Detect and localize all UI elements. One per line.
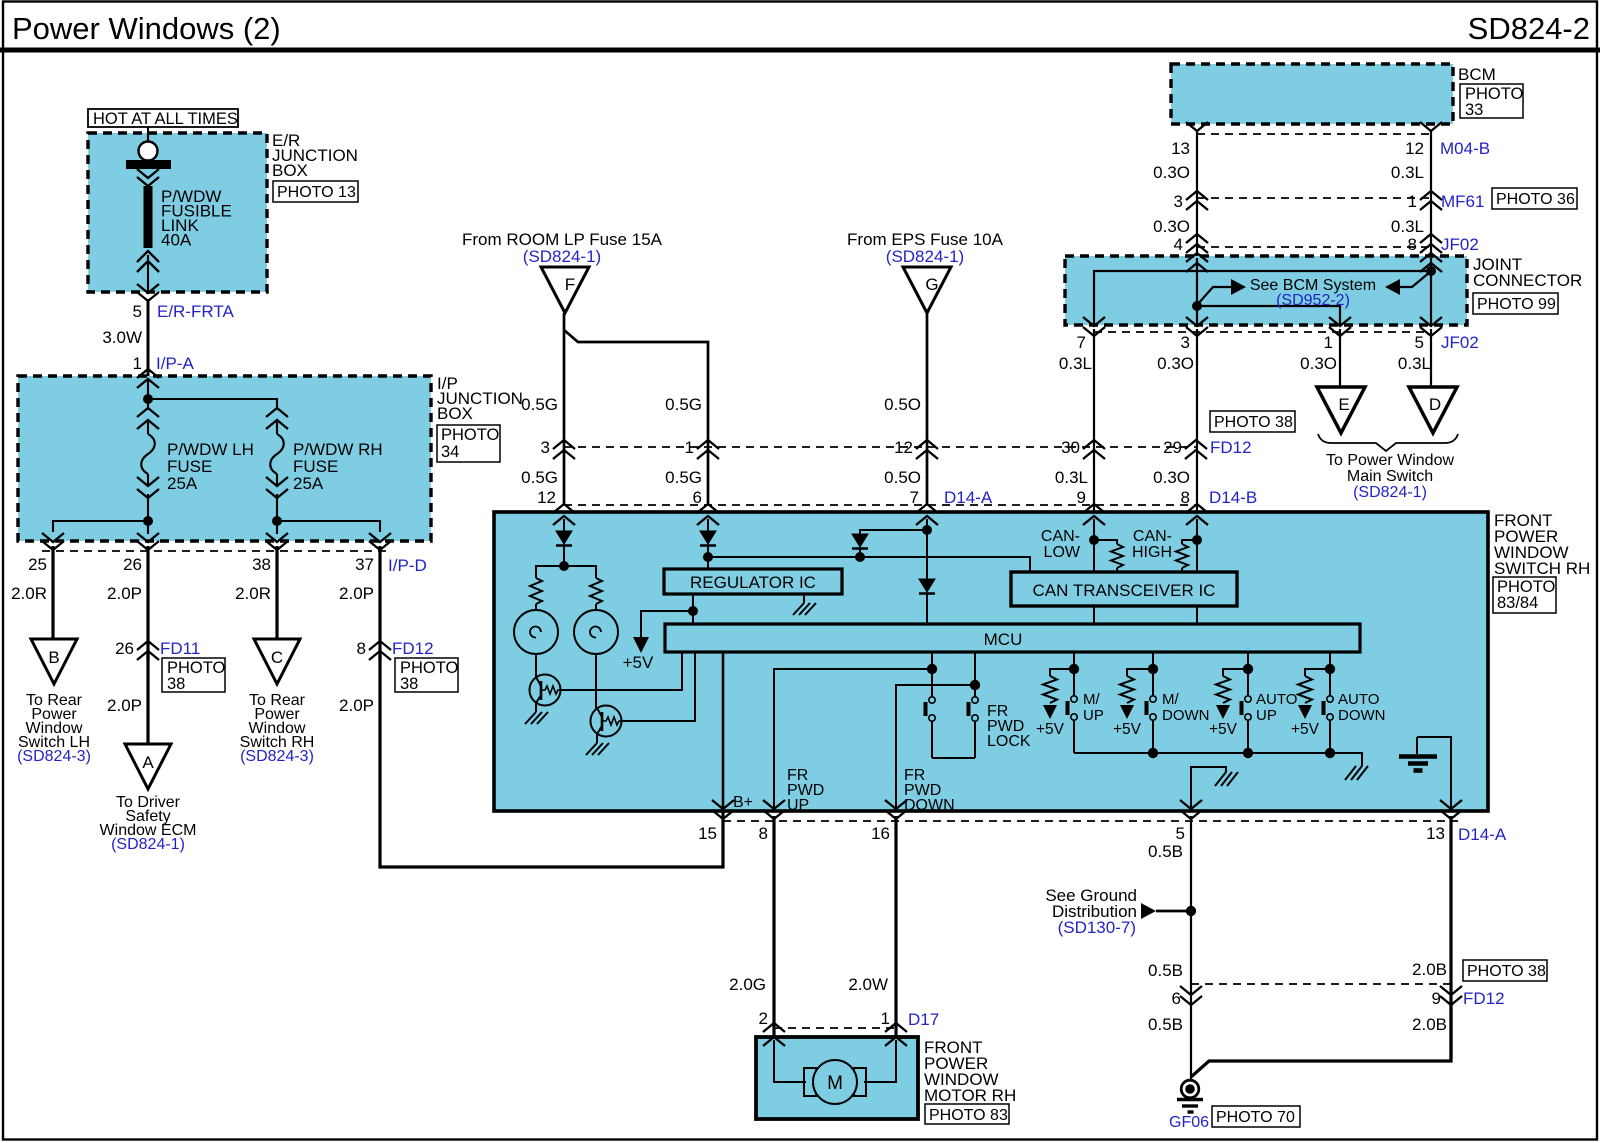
svg-text:I/P-D: I/P-D [388,556,427,575]
pin number 1 / connector I/P-A [133,354,195,373]
svg-text:2.0P: 2.0P [339,696,374,715]
pin 8 / FD12 labels [357,639,434,658]
svg-text:0.3O: 0.3O [1153,163,1190,182]
motor entry chevrons pin 1 [885,1023,907,1046]
svg-text:1: 1 [1408,192,1417,211]
front power window motor RH box [756,1037,918,1119]
chevrons pin 1 (x708) [685,438,719,459]
svg-text:(SD824-3): (SD824-3) [17,748,91,765]
wire 2.0P to FD11 [107,546,148,660]
wire lamp2 to transistor Q2 [595,654,597,710]
lock switch feed from pin 16 (FR PWD DOWN) [896,685,975,812]
svg-text:2.0B: 2.0B [1412,1015,1447,1034]
label FR PWD DOWN [904,767,955,814]
connector dashed row FD12 (mid) [564,446,1196,448]
svg-text:33: 33 [1465,101,1483,119]
label See Ground Distribution [1045,886,1137,937]
svg-text:DOWN: DOWN [904,797,955,814]
wire labels 0.3L 0.3O 0.3O 0.3L [1059,354,1431,373]
svg-text:(SD824-1): (SD824-1) [523,247,601,266]
triangle connector G [903,267,951,313]
BCM pin 12 chevron [1420,122,1442,131]
switch common bus [1074,748,1362,766]
label To Rear Power Window Switch RH [240,692,315,765]
svg-text:12: 12 [894,438,913,457]
base wire Q1 to MCU [560,652,682,690]
wire 2.0B pin 13 down [1412,816,1451,1059]
svg-text:0.5O: 0.5O [884,468,921,487]
dashed row GF06/FD12 bottom [1191,983,1451,985]
svg-text:CAN-: CAN- [1133,528,1172,545]
svg-text:CAN TRANSCEIVER IC: CAN TRANSCEIVER IC [1033,581,1216,600]
label FR PWD LOCK [987,703,1031,750]
svg-text:CONNECTOR: CONNECTOR [1473,271,1582,290]
connector FD11 chevrons [137,641,159,660]
svg-text:1: 1 [881,1009,890,1028]
label See BCM System (SD952-2) [1250,277,1376,309]
svg-text:0.5B: 0.5B [1148,961,1183,980]
label To Power Window Main Switch [1326,452,1454,501]
svg-text:B+: B+ [733,794,753,811]
ground (Q2) [586,743,609,755]
label FR PWD UP [787,767,824,814]
wire pin 8 to transceiver [1192,519,1202,572]
connector GF06 chevrons (pin 6) [1172,986,1202,1008]
BCM pin 13 chevron [1186,122,1208,131]
svg-text:BOX: BOX [272,161,308,180]
wire from left node to pin 1 [1197,306,1340,325]
lamp L1 [514,610,558,654]
pin labels 12 6 7 D14-A 9 8 D14-B [537,488,1257,507]
pin number 5 / connector E/R-FRTA [133,302,235,321]
svg-text:0.3O: 0.3O [1157,354,1194,373]
svg-text:D14-A: D14-A [944,488,993,507]
label box PHOTO 13 [273,181,358,202]
I/P junction box (cyan, dashed) [18,376,431,541]
label box PHOTO 36 [1492,188,1577,209]
lock switch bottom link [932,757,975,759]
wire from HOT box to terminal [147,127,149,142]
+5V feed arrow [623,611,693,672]
label M/ DOWN [1162,691,1210,724]
svg-text:HIGH: HIGH [1132,544,1172,561]
svg-text:38: 38 [252,555,271,574]
connector MF61 dashed row [1197,197,1431,199]
label box PHOTO 38 (bottom) [1463,960,1547,981]
resistor (AUTO UP) with +5V [1209,669,1248,738]
label box PHOTO 34 [437,425,500,462]
wire LH bottom branch to pin 25 [53,521,148,532]
svg-text:(SD824-1): (SD824-1) [1353,484,1427,501]
switch M/DOWN [1147,696,1157,753]
svg-text:Main Switch: Main Switch [1347,468,1433,485]
triangle connector E [1317,387,1365,433]
svg-text:(SD824-1): (SD824-1) [111,836,185,853]
joint connector box (cyan, dashed) [1065,256,1467,325]
JF02 chevrons pin 8 [1408,234,1479,254]
diode D4 (pin 7 lower) [919,579,935,624]
HOT AT ALL TIMES box [88,109,238,128]
svg-text:D17: D17 [908,1010,939,1029]
svg-text:2.0P: 2.0P [107,696,142,715]
fuse P/WDW LH (symbol) [137,408,159,521]
svg-text:0.3O: 0.3O [1153,217,1190,236]
wire diode D2 to node [703,546,713,569]
chevrons below fusible link [137,251,159,292]
title separator bar [0,48,1600,53]
lock switch 2 [969,697,979,758]
wire branch to RH fuse [148,399,277,410]
svg-text:GF06: GF06 [1169,1114,1209,1131]
svg-text:+5V: +5V [1209,721,1238,738]
switch M/UP [1068,696,1078,753]
svg-text:Power Windows (2): Power Windows (2) [12,11,281,46]
resistor (AUTO DOWN) with +5V [1291,669,1330,738]
wire 2.0P from FD12 to B+ pin 15 [339,655,723,867]
svg-text:38: 38 [400,675,418,693]
branch pin7 node to diode D3 [860,530,927,534]
label I/P JUNCTION BOX [437,374,523,423]
ground (pin5 stub) [1215,772,1238,786]
label box PHOTO 99 [1473,293,1558,314]
joint box exit chevrons pin 5 [1420,317,1442,336]
base wire Q2 to MCU [621,652,695,721]
CAN transceiver IC box [1011,572,1237,606]
wire joint pin 1 to triangle E [1339,329,1341,387]
svg-text:1: 1 [133,354,142,373]
svg-text:MCU: MCU [984,630,1023,649]
svg-text:1: 1 [1324,333,1333,352]
svg-text:13: 13 [1171,139,1190,158]
label GF06 [1169,1114,1209,1131]
wire stubs down to box edge [148,521,277,534]
svg-text:4: 4 [1174,235,1183,254]
exit chevron pin 13 [1440,800,1462,819]
svg-text:12: 12 [1405,139,1424,158]
front power window switch RH box [494,512,1488,811]
svg-text:BOX: BOX [437,404,473,423]
svg-text:5: 5 [133,302,142,321]
triangle connector F [541,267,589,313]
svg-text:PHOTO 13: PHOTO 13 [277,184,356,201]
label P/WDW LH FUSE 25A [167,440,254,493]
wire diode to lamp rail node [559,546,569,571]
svg-text:FD11: FD11 [160,639,200,658]
wire joint pin 3 down to switch box [1196,329,1198,513]
svg-text:15: 15 [698,824,717,843]
brace under E and D [1318,434,1458,451]
label M/ UP [1083,691,1104,724]
switch group AUTO UP riser [1243,652,1253,696]
resistor (M/UP) with +5V [1036,669,1074,738]
wire pin 5 internal with ground stub [1191,767,1226,812]
E/R junction box (cyan, dashed) [88,133,267,292]
svg-text:M: M [827,1073,843,1094]
chevrons below terminal [137,169,159,186]
svg-text:D: D [1429,395,1441,414]
svg-text:BCM: BCM [1458,65,1496,84]
entry chevrons pin 7 [916,504,938,525]
svg-text:3.0W: 3.0W [102,328,142,347]
connector dashed line below I/P box [42,550,392,552]
svg-text:0.5B: 0.5B [1148,1015,1183,1034]
svg-text:26: 26 [123,555,142,574]
MF61 chevrons pin 1 [1408,191,1485,211]
svg-text:0.3L: 0.3L [1059,354,1092,373]
svg-text:0.3L: 0.3L [1391,217,1424,236]
lock switch 2 riser to MCU [970,652,980,696]
entry chevrons pin 9 [1083,504,1105,525]
svg-text:(SD824-1): (SD824-1) [886,247,964,266]
wire pin 9 to transceiver [1089,519,1099,572]
pin 1 entry chevrons into I/P box [137,369,159,388]
lock switch 1 [926,697,936,758]
junction node on left wire [1192,301,1202,311]
svg-text:FD12: FD12 [1463,989,1505,1008]
wire from right node to pin 7 [1094,271,1431,325]
svg-text:2.0R: 2.0R [11,584,47,603]
pin 26 / FD11 labels [115,639,200,658]
svg-text:0.3O: 0.3O [1153,468,1190,487]
entry chevrons pin 12 [553,504,575,525]
svg-text:M/: M/ [1083,691,1100,708]
wire E/R to I/P (3.0W) [147,299,150,376]
ground (Q1) [525,712,548,724]
svg-text:1: 1 [685,438,694,457]
resistor (M/DOWN) with +5V [1113,669,1153,738]
svg-text:0.3L: 0.3L [1391,163,1424,182]
wire inside joint: left vertical [1196,258,1198,325]
svg-text:PHOTO 99: PHOTO 99 [1477,296,1556,313]
lamp rail horizontal [536,566,596,578]
svg-text:3: 3 [1174,192,1183,211]
svg-text:12: 12 [537,488,556,507]
svg-text:(SD824-3): (SD824-3) [240,748,314,765]
svg-text:MF61: MF61 [1441,192,1484,211]
svg-text:G: G [925,275,938,294]
svg-text:A: A [142,753,154,772]
svg-text:34: 34 [441,443,459,461]
svg-text:LOCK: LOCK [987,733,1031,750]
emitter wire Q1 to ground [535,703,537,712]
labels 13 12 M04-B [1171,139,1490,158]
svg-text:E/R-FRTA: E/R-FRTA [157,302,234,321]
svg-text:2.0G: 2.0G [729,975,766,994]
svg-text:C: C [271,648,283,667]
svg-text:+5V: +5V [1291,721,1320,738]
BCM box (cyan, dashed) [1171,64,1453,124]
bottom pin labels 15 8 16 5 13 D14-A [698,824,1507,844]
svg-text:0.3O: 0.3O [1300,354,1337,373]
triangle connector D [1409,387,1457,433]
see BCM arrow right [1197,279,1246,305]
wire lamp1 to transistor Q1 [535,654,537,679]
joint box exit chevrons pin 3 [1186,317,1208,336]
label JOINT CONNECTOR [1473,255,1582,290]
svg-text:8: 8 [357,639,366,658]
label E/R JUNCTION BOX [272,131,358,180]
triangle connector A [125,744,171,789]
chevrons pin 12 (x927) [894,438,938,459]
switch group M/DOWN riser [1148,652,1158,696]
svg-text:F: F [565,275,575,294]
svg-text:5: 5 [1176,824,1185,843]
wire pin 7 down with node [922,519,932,579]
wire into junction node [147,380,149,410]
label CAN-LOW [1041,528,1081,561]
svg-text:6: 6 [693,488,702,507]
wire BCM left to joint connector (0.3O) [1153,131,1197,258]
diode D3 [852,534,868,562]
transistor Q1 [530,675,561,706]
triangle connector B [31,639,77,684]
wires transceiver to MCU [1094,606,1197,624]
resistor R2 (lamp 2) [590,578,602,610]
svg-text:37: 37 [355,555,374,574]
dashed row below BCM [1197,133,1431,135]
ground (switch bus) [1345,766,1368,780]
MCU box [665,624,1360,652]
svg-text:25: 25 [28,555,47,574]
svg-text:SD824-2: SD824-2 [1468,11,1590,46]
dashed row below switch box [723,820,1458,822]
motor entry chevrons pin 2 [763,1023,785,1046]
svg-text:0.3L: 0.3L [1055,468,1088,487]
label From ROOM LP Fuse 15A [462,230,663,266]
switch AUTO DOWN [1324,696,1334,753]
fusible link bar [144,186,153,248]
wire 2.0B elbow to ground [1191,1003,1451,1077]
chevrons pin 29 (x1196) FD12 [1163,438,1252,459]
svg-text:0.5O: 0.5O [884,395,921,414]
motor M circle with brushes [804,1060,866,1104]
svg-text:JF02: JF02 [1441,333,1479,352]
svg-text:0.5G: 0.5G [665,468,702,487]
svg-text:M/: M/ [1162,691,1179,708]
MF61 chevrons pin 3 [1174,191,1208,211]
fuse P/WDW RH (symbol) [266,408,288,521]
label AUTO DOWN [1338,691,1386,724]
svg-text:38: 38 [167,675,185,693]
wire branch F to second leg [564,330,708,504]
svg-text:PHOTO 70: PHOTO 70 [1216,1109,1295,1126]
svg-text:29: 29 [1163,438,1182,457]
wire inside joint: right vertical [1430,258,1432,325]
pin 38 chevrons [266,533,288,550]
resistor CAN-LOW [1094,540,1123,572]
lamp L2 [574,610,618,654]
regulator IC box [664,569,842,594]
svg-text:2.0P: 2.0P [339,584,374,603]
pin 25 chevrons [42,533,64,550]
resistor R1 (lamp 1) [530,578,542,610]
svg-text:0.5B: 0.5B [1148,842,1183,861]
svg-text:MOTOR RH: MOTOR RH [924,1086,1016,1105]
connector FD12 chevrons (pin 9) [1432,986,1505,1008]
lock switch 1 riser to MCU [927,652,937,696]
pin 5 chevrons at E/R box bottom [137,284,159,301]
entry chevrons into joint box (left) [1186,253,1208,272]
svg-text:D14-B: D14-B [1209,488,1257,507]
label BCM [1458,65,1496,84]
svg-text:83/84: 83/84 [1497,594,1538,612]
emitter wire Q2 to ground [596,734,598,743]
svg-text:9: 9 [1432,989,1441,1008]
svg-text:9: 9 [1077,488,1086,507]
see BCM arrow left [1385,272,1430,295]
svg-text:0.5G: 0.5G [665,395,702,414]
pin numbers 25 26 38 37 / I/P-D [28,555,427,575]
wire labels 0.3O / 0.3L below MF61 [1153,217,1424,236]
JF02 chevrons pin 4 [1174,234,1208,254]
connector JF02 dashed row (upper) [1197,246,1431,248]
svg-text:16: 16 [871,824,890,843]
chevrons pin 30 (x1094) [1061,438,1105,459]
wire pin 12 to diode [563,519,565,531]
label CAN-HIGH [1132,528,1172,561]
lock switch feed from pin 8 (FR PWD UP) [774,669,932,812]
svg-text:AUTO: AUTO [1256,691,1297,708]
svg-text:40A: 40A [161,231,192,250]
triangle connector C [254,639,300,684]
svg-text:25A: 25A [167,474,198,493]
svg-text:26: 26 [115,639,134,658]
see ground arrow [1141,903,1191,919]
label box PHOTO 38 (FD11) [162,658,226,693]
svg-text:PHOTO 38: PHOTO 38 [1214,414,1293,431]
label P/WDW RH FUSE 25A [293,440,383,493]
label box PHOTO 70 [1212,1106,1300,1127]
svg-text:(SD130-7): (SD130-7) [1058,918,1136,937]
svg-text:25A: 25A [293,474,324,493]
svg-text:5: 5 [1415,333,1424,352]
ground GF06 symbol [1177,1080,1203,1112]
junction node at I/P top [143,394,153,404]
svg-text:JF02: JF02 [1441,235,1479,254]
svg-text:6: 6 [1172,989,1181,1008]
connector FD12 chevrons (pin 8) [369,641,391,660]
svg-text:UP: UP [1083,707,1104,724]
svg-text:E: E [1338,395,1349,414]
svg-text:PHOTO 36: PHOTO 36 [1496,191,1575,208]
label box PHOTO 83/84 [1493,577,1556,613]
svg-text:+5V: +5V [1113,721,1142,738]
junction node RH fuse bottom [272,516,282,526]
motor pin labels 2 1 D17 [759,1009,940,1029]
entry chevrons pin 6 [697,504,719,525]
battery terminal circle [139,142,158,161]
wire 2.0R to C [235,546,277,639]
wire 0.5B pin 5 down to GF06 [1148,816,1191,1079]
motor internal wires [774,1040,896,1082]
svg-text:PHOTO 83: PHOTO 83 [929,1107,1008,1124]
junction node on 0.5B wire [1186,906,1196,916]
svg-text:M04-B: M04-B [1440,139,1490,158]
wire 2.0R to B [11,546,53,639]
label To Driver Safety Window ECM [100,794,197,853]
title right: SD824-2 [1468,11,1590,46]
wire labels below FD12 row [521,468,1190,487]
svg-text:0.5G: 0.5G [521,395,558,414]
switch group M/UP riser [1069,652,1079,696]
rail from pin6 node to CAN transceiver [708,557,1030,572]
svg-text:FD12: FD12 [392,639,434,658]
svg-text:UP: UP [787,797,809,814]
svg-text:UP: UP [1256,707,1277,724]
switch AUTO UP [1242,696,1252,753]
label B+ [733,794,753,811]
connector dashed row D14 [564,504,1197,506]
